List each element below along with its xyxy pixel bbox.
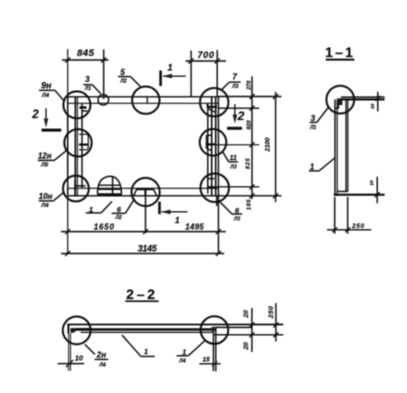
svg-text:Л4: Л4 <box>98 362 106 368</box>
svg-text:2н: 2н <box>96 351 106 360</box>
svg-text:3: 3 <box>311 114 316 123</box>
svg-text:Л3: Л3 <box>229 164 236 170</box>
svg-text:820: 820 <box>247 119 253 129</box>
svg-text:Л1: Л1 <box>84 86 91 92</box>
svg-text:700: 700 <box>197 50 214 60</box>
svg-text:1: 1 <box>89 205 93 214</box>
svg-text:Л3: Л3 <box>233 217 240 223</box>
svg-text:3145: 3145 <box>138 243 158 253</box>
svg-text:2: 2 <box>237 109 245 123</box>
svg-text:Л5: Л5 <box>40 163 49 169</box>
svg-text:10: 10 <box>370 103 376 109</box>
svg-text:2–2: 2–2 <box>126 286 158 302</box>
svg-text:Л1: Л1 <box>309 125 316 131</box>
svg-text:2100: 2100 <box>264 137 271 152</box>
svg-text:2: 2 <box>31 109 39 121</box>
svg-text:12н: 12н <box>38 152 52 161</box>
svg-text:250: 250 <box>351 223 365 230</box>
svg-text:1495: 1495 <box>185 222 204 231</box>
svg-text:1: 1 <box>144 347 148 356</box>
svg-text:10н: 10н <box>39 192 53 201</box>
svg-text:Л4: Л4 <box>41 93 50 99</box>
svg-text:1: 1 <box>182 347 186 356</box>
svg-text:15: 15 <box>203 357 211 364</box>
svg-text:270: 270 <box>247 81 253 91</box>
svg-text:Л4: Л4 <box>178 359 186 365</box>
svg-text:10: 10 <box>75 354 83 363</box>
svg-text:10: 10 <box>369 180 375 186</box>
svg-text:Л4: Л4 <box>40 203 49 209</box>
svg-text:Л3: Л3 <box>231 84 238 90</box>
svg-text:3: 3 <box>85 75 90 84</box>
svg-text:1: 1 <box>175 215 180 225</box>
svg-text:5: 5 <box>120 68 125 77</box>
svg-text:20: 20 <box>243 310 250 319</box>
svg-text:250: 250 <box>268 306 275 320</box>
svg-text:9н: 9н <box>41 81 52 91</box>
svg-text:825: 825 <box>245 157 251 169</box>
svg-text:1–1: 1–1 <box>325 44 355 60</box>
svg-text:185: 185 <box>247 199 253 210</box>
svg-text:7: 7 <box>232 72 237 81</box>
svg-text:11: 11 <box>229 153 236 162</box>
svg-text:20: 20 <box>243 342 250 351</box>
svg-text:Л2: Л2 <box>114 215 121 221</box>
svg-text:1: 1 <box>310 162 315 171</box>
svg-text:Л2: Л2 <box>119 79 126 85</box>
svg-text:1: 1 <box>167 63 172 73</box>
svg-text:1650: 1650 <box>94 223 115 232</box>
svg-text:845: 845 <box>77 48 95 59</box>
